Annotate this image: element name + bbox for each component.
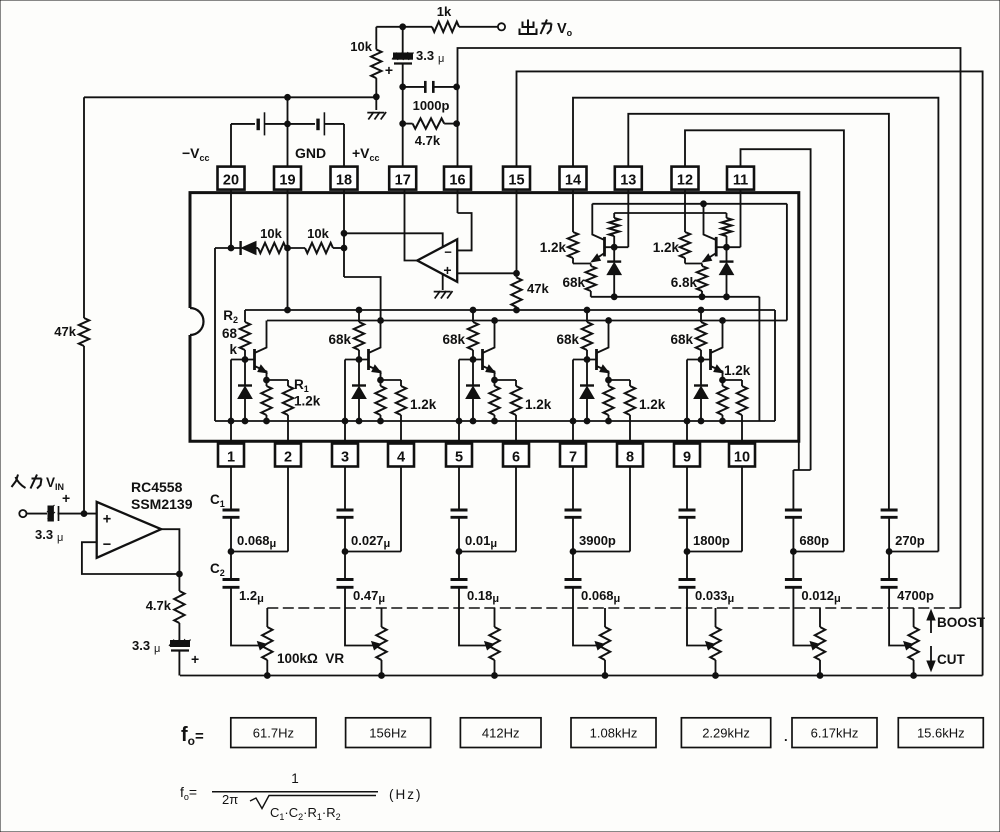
potentiometer VR7 100k bbox=[908, 608, 918, 678]
svg-text:68k: 68k bbox=[442, 332, 465, 347]
capacitor C1 0.01 (band 3) bbox=[451, 510, 468, 517]
wiper arrow (band 1) bbox=[258, 642, 267, 650]
svg-text:−: − bbox=[103, 537, 111, 553]
wiper arrow (band 4) bbox=[595, 642, 604, 650]
capacitor C2 0.47 (band 2) bbox=[337, 552, 354, 588]
svg-text:1k: 1k bbox=[437, 4, 452, 19]
wire: +Vcc pin18 drop bbox=[343, 124, 345, 167]
resistor 1.2k (upper-left cell, pin column) bbox=[568, 190, 578, 264]
resistor 1.2k second (cell 4) bbox=[625, 380, 635, 444]
wire: C2 down to wiper (band 3) bbox=[459, 587, 487, 645]
svg-text:1.2k: 1.2k bbox=[525, 397, 552, 412]
label 68k (cell 4) bbox=[556, 332, 579, 347]
svg-text:fo=: fo= bbox=[180, 784, 197, 802]
resistor 47k (left) bbox=[54, 318, 89, 346]
svg-text:10: 10 bbox=[734, 449, 750, 465]
svg-text:3: 3 bbox=[341, 449, 349, 465]
svg-text:4700p: 4700p bbox=[897, 588, 934, 603]
capacitor C2 1.2 (band 1) bbox=[223, 552, 240, 588]
wire: pin15 column into IC bbox=[516, 190, 518, 274]
wire: left rail lower bbox=[83, 346, 85, 514]
capacitor C2 0.18 (band 3) bbox=[451, 552, 468, 588]
wire: mid node (band 4) bbox=[570, 517, 630, 554]
svg-text:680p: 680p bbox=[799, 533, 829, 548]
wire: U2 non-inverting input to 47k node bbox=[457, 270, 519, 276]
label 1.2k (cell 5) bbox=[724, 363, 751, 378]
svg-text:1.2k: 1.2k bbox=[653, 240, 680, 255]
label RC4558 / SSM2139 bbox=[131, 479, 193, 512]
wire: mid node (band 5) bbox=[684, 517, 742, 554]
wire: pin19 column inside IC bbox=[285, 190, 291, 313]
resistor 10k (second) bbox=[305, 226, 333, 253]
label C2 value (band 1) bbox=[239, 588, 264, 605]
resistor 1.2k second (cell 5) bbox=[737, 380, 747, 444]
label C1 value (band 4) bbox=[579, 533, 616, 548]
fo frequency box 156Hz bbox=[346, 718, 431, 748]
fo frequency box 1.08kHz bbox=[571, 718, 656, 748]
IC body outline (DIP-20) with notch bbox=[190, 193, 799, 442]
svg-text:47k: 47k bbox=[54, 324, 76, 339]
capacitor C1 3900p (band 4) bbox=[565, 510, 582, 517]
diode D3 (cell 3) bbox=[466, 360, 480, 424]
capacitor 3.3u (top electrolytic) bbox=[385, 48, 444, 78]
wire: mid node (band 3) bbox=[456, 517, 516, 554]
output terminal circle bbox=[498, 23, 505, 30]
label C2 bbox=[210, 561, 225, 578]
capacitor 1000p bbox=[403, 81, 460, 113]
svg-text:9: 9 bbox=[683, 449, 691, 465]
wire: pin 9 riser to base node (cell 5) bbox=[684, 357, 710, 444]
svg-text:1.2k: 1.2k bbox=[639, 397, 666, 412]
capacitor C2 0.033 (band 5) bbox=[679, 552, 696, 588]
potentiometer VR3 100k bbox=[489, 608, 499, 678]
label BOOST with arrow bbox=[927, 610, 986, 633]
svg-text:+: + bbox=[62, 490, 70, 506]
op-amp U1 RC4558 (pointing right) bbox=[97, 502, 162, 558]
wiper arrow (band 2) bbox=[372, 642, 381, 650]
wire: mid node (band 6) bbox=[791, 517, 844, 554]
svg-text:1.2k: 1.2k bbox=[540, 240, 567, 255]
svg-text:11: 11 bbox=[733, 172, 748, 188]
resistor 10k (top, to ground) bbox=[350, 27, 381, 110]
svg-text:6: 6 bbox=[512, 449, 520, 465]
svg-text:4: 4 bbox=[397, 449, 405, 465]
label R2 68k (cell 1) bbox=[222, 308, 238, 357]
svg-text:+: + bbox=[385, 62, 393, 78]
svg-text:15: 15 bbox=[508, 172, 524, 188]
label C1 value (band 6) bbox=[799, 533, 829, 548]
svg-text:3900p: 3900p bbox=[579, 533, 616, 548]
wire: emitter node (cell 5) bbox=[720, 377, 742, 383]
wire: upper rail drop to inner rail bbox=[758, 297, 760, 421]
wire: C2 down to wiper (band 4) bbox=[573, 587, 597, 645]
resistor 1.2k second (cell 3) bbox=[511, 380, 521, 444]
label 68k (cell 5) bbox=[670, 332, 693, 347]
label 1.2k (upper-left cell) bbox=[540, 240, 567, 255]
wire: U2 output to pin17 column bbox=[405, 190, 418, 261]
transistor (upper-right cell) bbox=[703, 204, 717, 262]
formula fo = 1/(2pi sqrt(C1 C2 R1 R2)) (Hz) bbox=[180, 771, 423, 822]
wire: U1 feedback loop bbox=[82, 542, 179, 574]
capacitor C1 680p (band 6) bbox=[785, 510, 802, 517]
wire: pin15 feedback to CUT rail end bbox=[517, 71, 983, 675]
wire: pin18 column inside IC bbox=[341, 190, 347, 277]
svg-text:16: 16 bbox=[449, 172, 465, 188]
svg-text:1: 1 bbox=[291, 771, 299, 786]
wire: collector rail H1 (upper cells) bbox=[592, 201, 787, 207]
svg-text:10k: 10k bbox=[307, 226, 329, 241]
svg-text:68: 68 bbox=[222, 326, 238, 341]
label C1 value (band 3) bbox=[465, 533, 497, 550]
svg-text:10k: 10k bbox=[260, 226, 282, 241]
capacitor C1 0.068 (band 1) bbox=[223, 510, 240, 517]
label CUT with arrow bbox=[927, 646, 965, 671]
transistor Q3 (cell 3) bbox=[483, 321, 496, 381]
resistor base 1.2k (upper-right cell) bbox=[721, 213, 731, 247]
svg-text:10k: 10k bbox=[350, 39, 372, 54]
label R1 1.2k (cell 1) bbox=[294, 377, 321, 409]
wiper arrow (band 3) bbox=[485, 642, 494, 650]
svg-text:15.6kHz: 15.6kHz bbox=[917, 726, 965, 741]
potentiometer VR4 100k bbox=[600, 608, 610, 678]
wire: rail1 right end down to inner rail bbox=[774, 310, 776, 421]
svg-text:68k: 68k bbox=[556, 332, 579, 347]
wire: CUT rail bbox=[180, 675, 983, 677]
battery (GND to +Vcc) bbox=[288, 112, 345, 135]
svg-text:18: 18 bbox=[336, 172, 352, 188]
svg-text:3.3: 3.3 bbox=[35, 527, 53, 542]
wire: pin 7 down to C1 (band 4) bbox=[572, 467, 574, 511]
resistor R2 68k (cell 1) bbox=[240, 310, 250, 360]
resistor 1.2k second (cell 2) bbox=[396, 380, 406, 444]
wire: emitter node (upper-right cell) bbox=[685, 263, 702, 265]
svg-text:412Hz: 412Hz bbox=[482, 726, 520, 741]
label 1.2k (cell 4) bbox=[639, 397, 666, 412]
wire: upper emitter rail bbox=[591, 294, 760, 300]
svg-text:2.29kHz: 2.29kHz bbox=[702, 726, 750, 741]
svg-text:3.3: 3.3 bbox=[416, 48, 434, 63]
resistor 1.2k first (cell 3) bbox=[489, 380, 499, 424]
potentiometer VR1 100k bbox=[262, 608, 272, 678]
svg-text:19: 19 bbox=[279, 172, 295, 188]
transistor Q2 (cell 2) bbox=[369, 321, 382, 381]
wire: feedback step to op-amp U2 top edge bbox=[344, 233, 443, 247]
wire: pin14 feedback to band7 mid bbox=[573, 98, 938, 552]
capacitor C2 0.012 (band 6) bbox=[785, 552, 802, 588]
wire: output node to CUT rail bbox=[178, 650, 180, 676]
wire: pin13 feedback to band7 top cap bbox=[628, 114, 889, 510]
wire: pin column to base (upper-left cell) bbox=[627, 190, 629, 248]
wire: diode row left corner down to inner rail bbox=[214, 248, 216, 421]
fo frequency box 15.6kHz bbox=[898, 718, 983, 748]
wire: op-amp output top node to 1k bbox=[376, 24, 498, 30]
resistor 1k bbox=[432, 4, 459, 32]
IC top pin boxes 20-11 bbox=[218, 167, 755, 190]
battery (-Vcc to GND) bbox=[231, 112, 288, 135]
svg-text:1000p: 1000p bbox=[413, 98, 450, 113]
capacitor C2 4700p (band 7) bbox=[881, 552, 898, 588]
svg-text:+: + bbox=[103, 512, 111, 528]
wire: IC corner drop and jog to band6 top cap bbox=[793, 441, 810, 510]
label C2 value (band 7) bbox=[897, 588, 934, 603]
wire: base wire (upper-right cell) bbox=[716, 244, 740, 250]
wiper arrow (band 7) bbox=[904, 642, 913, 650]
wire: pin 4 down to mid node (band 2) bbox=[400, 467, 402, 552]
label 100k VR bbox=[277, 651, 344, 666]
svg-text:1: 1 bbox=[227, 449, 235, 465]
wire: pin 10 down to mid node (band 5) bbox=[741, 467, 743, 552]
wire: C2 down to wiper (band 1) bbox=[231, 587, 259, 645]
label 1.2k (cell 3) bbox=[525, 397, 552, 412]
svg-text:17: 17 bbox=[395, 172, 411, 188]
dot before 6.17kHz box bbox=[784, 729, 788, 744]
label C1 value (band 5) bbox=[693, 533, 730, 548]
svg-text:SSM2139: SSM2139 bbox=[131, 496, 193, 512]
svg-text:6.8k: 6.8k bbox=[671, 275, 698, 290]
potentiometer VR6 100k bbox=[815, 608, 825, 678]
potentiometer VR2 100k bbox=[376, 608, 386, 678]
label 68k (cell 3) bbox=[442, 332, 465, 347]
label C2 value (band 4) bbox=[581, 588, 620, 605]
label 6.8k (upper-right cell) bbox=[671, 275, 698, 290]
svg-text:68k: 68k bbox=[670, 332, 693, 347]
svg-text:156Hz: 156Hz bbox=[369, 726, 407, 741]
svg-text:1800p: 1800p bbox=[693, 533, 730, 548]
capacitor C1 0.027 (band 2) bbox=[337, 510, 354, 517]
diode D4 (cell 4) bbox=[580, 360, 594, 424]
wire: pin11 feedback to band6 jog bbox=[741, 149, 811, 470]
svg-text:(Hz): (Hz) bbox=[389, 787, 423, 802]
svg-text:3.3: 3.3 bbox=[132, 638, 150, 653]
svg-text:13: 13 bbox=[620, 172, 636, 188]
svg-text:.: . bbox=[784, 729, 788, 744]
label 68k (upper-left cell) bbox=[562, 275, 585, 290]
svg-text:14: 14 bbox=[565, 172, 581, 188]
resistor 4.7k (output) bbox=[146, 574, 185, 640]
diode D2 (cell 2) bbox=[352, 360, 366, 424]
fo frequency box 2.29kHz bbox=[681, 718, 770, 748]
diode D5 (cell 5) bbox=[694, 360, 708, 424]
svg-text:2: 2 bbox=[284, 449, 292, 465]
wiper arrow (band 5) bbox=[706, 642, 715, 650]
label C1 value (band 2) bbox=[351, 533, 390, 550]
label GND bbox=[295, 145, 326, 161]
wire: pin 1 riser to base node (cell 1) bbox=[228, 357, 254, 444]
capacitor C1 270p (band 7) bbox=[881, 510, 898, 517]
potentiometer VR5 100k bbox=[710, 608, 720, 678]
wire: base wire (upper-left cell) bbox=[605, 244, 629, 250]
diode D1 (cell 1) bbox=[238, 360, 252, 424]
wire: pin 2 down to mid node (band 1) bbox=[287, 467, 289, 552]
svg-text:1.2k: 1.2k bbox=[724, 363, 751, 378]
wire: pin18 jog to rail 2 bbox=[344, 277, 381, 321]
svg-text:k: k bbox=[229, 342, 237, 357]
label 出力Vo (output) bbox=[520, 20, 573, 39]
label 入力VIN (input) bbox=[12, 475, 65, 493]
wire: emitter node (cell 2) bbox=[378, 377, 401, 383]
transistor Q1 (cell 1) bbox=[255, 321, 268, 381]
label 1.2k (cell 2) bbox=[410, 397, 437, 412]
wire: C2 down to wiper (band 6) bbox=[793, 587, 812, 645]
fo frequency box 412Hz bbox=[460, 718, 541, 748]
wire: C2 down to wiper (band 5) bbox=[687, 587, 708, 645]
svg-text:1.2k: 1.2k bbox=[294, 394, 321, 409]
fo frequency box 6.17kHz bbox=[792, 718, 877, 748]
label C2 value (band 2) bbox=[353, 588, 385, 605]
wire: rail 1 (bias rail) bbox=[245, 307, 775, 313]
svg-text:7: 7 bbox=[569, 449, 577, 465]
label C1 bbox=[210, 492, 225, 509]
label fo= bbox=[181, 724, 204, 748]
svg-text:μ: μ bbox=[438, 53, 444, 65]
wire: pin column to base (upper-right cell) bbox=[740, 190, 742, 248]
wire: pin12 feedback to band6 mid bbox=[685, 130, 844, 551]
resistor 6.8k (upper-right cell) bbox=[697, 264, 707, 297]
svg-text:8: 8 bbox=[626, 449, 634, 465]
label C2 value (band 6) bbox=[801, 588, 840, 605]
resistor 1.2k first (cell 2) bbox=[375, 380, 385, 424]
wire: C2 down to wiper (band 7) bbox=[889, 587, 906, 645]
wire: C2 down to wiper (band 2) bbox=[345, 587, 374, 645]
svg-text:1.08kHz: 1.08kHz bbox=[590, 726, 638, 741]
resistor R2 68k (cell 4) bbox=[582, 310, 592, 360]
resistor R2 68k (cell 2) bbox=[354, 310, 364, 360]
wire: 10k to pin18 column bbox=[333, 245, 347, 251]
transistor (upper-left cell) bbox=[591, 204, 604, 262]
wire: pin 17 column (top) bbox=[400, 27, 406, 167]
wire: base-resistor rail H2 (upper cells) bbox=[614, 212, 726, 214]
svg-text:4.7k: 4.7k bbox=[146, 598, 172, 613]
svg-text:270p: 270p bbox=[895, 533, 925, 548]
wire: pin 9 down to C1 (band 5) bbox=[686, 467, 688, 511]
resistor 1.2k first (cell 1) bbox=[261, 380, 271, 424]
svg-text:47k: 47k bbox=[527, 281, 549, 296]
svg-text:5: 5 bbox=[455, 449, 463, 465]
wire: pin 5 riser to base node (cell 3) bbox=[456, 357, 482, 444]
fo frequency box 61.7Hz bbox=[231, 718, 316, 748]
wire: left rail with 47k bbox=[83, 97, 85, 318]
resistor 1.2k first (cell 5) bbox=[717, 380, 727, 424]
diode (upper-right cell) bbox=[720, 247, 734, 297]
label +Vcc bbox=[352, 145, 380, 163]
transistor Q5 (cell 5) bbox=[711, 321, 724, 381]
svg-text:4.7k: 4.7k bbox=[415, 133, 441, 148]
diode (left, at 10k row) bbox=[215, 241, 258, 255]
wire: U1 output down bbox=[161, 529, 182, 577]
svg-text:6.17kHz: 6.17kHz bbox=[811, 726, 859, 741]
input terminal circle bbox=[19, 510, 26, 517]
svg-text:2π: 2π bbox=[222, 792, 238, 807]
capacitor C2 0.068 (band 4) bbox=[565, 552, 582, 588]
svg-text:RC4558: RC4558 bbox=[131, 479, 183, 495]
wire: pin 5 down to C1 (band 3) bbox=[458, 467, 460, 511]
diode (upper-left cell) bbox=[607, 247, 621, 297]
wire: pin 6 down to mid node (band 3) bbox=[515, 467, 517, 552]
wire: top-left rail to 10k/gnd node bbox=[84, 94, 376, 100]
wire: GND pin19 column bbox=[285, 97, 291, 166]
wire: mid node (band 2) bbox=[342, 517, 401, 554]
svg-text:20: 20 bbox=[223, 172, 239, 188]
op-amp U2 (internal, pointing left) bbox=[417, 239, 457, 281]
wire: emitter node (cell 1) bbox=[264, 377, 288, 383]
svg-text:68k: 68k bbox=[562, 275, 585, 290]
capacitor 3.3u (output electrolytic) bbox=[132, 638, 199, 667]
svg-text:BOOST: BOOST bbox=[937, 615, 986, 630]
resistor R2 68k (cell 5) bbox=[696, 310, 706, 360]
svg-text:68k: 68k bbox=[328, 332, 351, 347]
label C1 value (band 7) bbox=[895, 533, 925, 548]
svg-text:μ: μ bbox=[57, 532, 63, 544]
svg-text:GND: GND bbox=[295, 145, 326, 161]
label C1 value (band 1) bbox=[237, 533, 276, 550]
wire: pin20 into IC bbox=[228, 190, 234, 251]
wire: mid node (band 7) bbox=[886, 517, 938, 554]
transistor Q4 (cell 4) bbox=[597, 321, 610, 381]
resistor 1.2k first (cell 4) bbox=[603, 380, 613, 424]
svg-text:100kΩ VR: 100kΩ VR bbox=[277, 651, 344, 666]
svg-text:−: − bbox=[444, 245, 452, 260]
label 68k (cell 2) bbox=[328, 332, 351, 347]
svg-text:μ: μ bbox=[154, 643, 160, 655]
capacitor C1 1800p (band 5) bbox=[679, 510, 696, 517]
wire: -Vcc pin20 drop bbox=[230, 124, 232, 167]
IC bottom pin boxes 1-10 bbox=[218, 444, 755, 467]
label C2 value (band 3) bbox=[467, 588, 499, 605]
wire: pin 7 riser to base node (cell 4) bbox=[570, 357, 596, 444]
wire: BOOST rail (dashed) bbox=[267, 607, 960, 609]
svg-text:1.2k: 1.2k bbox=[410, 397, 437, 412]
wire: pin 8 down to mid node (band 4) bbox=[629, 467, 631, 552]
resistor 68k (upper-left cell) bbox=[586, 264, 596, 297]
svg-text:CUT: CUT bbox=[937, 652, 965, 667]
wire: emitter node (upper-left cell) bbox=[573, 263, 591, 265]
label -Vcc bbox=[182, 145, 210, 163]
svg-text:12: 12 bbox=[677, 172, 693, 188]
label C2 value (band 5) bbox=[695, 588, 734, 605]
wiper arrow (band 6) bbox=[810, 642, 819, 650]
svg-text:+: + bbox=[191, 651, 199, 667]
wire: pin 1 down to C1 (band 1) bbox=[230, 467, 232, 511]
svg-text:61.7Hz: 61.7Hz bbox=[253, 726, 294, 741]
wire: pin 3 riser to base node (cell 2) bbox=[342, 357, 368, 444]
resistor R2 68k (cell 3) bbox=[468, 310, 478, 360]
wire: pin 3 down to C1 (band 2) bbox=[344, 467, 346, 511]
ground (under op-amp U2) bbox=[434, 291, 453, 299]
wire: U2 ground stub bbox=[442, 274, 444, 290]
resistor 47k (internal) bbox=[511, 273, 549, 313]
resistor 1.2k (upper-right cell, pin column) bbox=[680, 190, 690, 264]
wire: inner emitter rail bbox=[215, 420, 775, 422]
resistor 4.7k (top) bbox=[403, 118, 460, 148]
wire: 10k junction at pin19 column bbox=[285, 245, 305, 251]
svg-text:+: + bbox=[443, 262, 451, 278]
capacitor 3.3u (input electrolytic) bbox=[27, 490, 71, 544]
wire: input to op-amp U1 bbox=[58, 511, 97, 517]
resistor 10k (first) bbox=[258, 226, 286, 253]
resistor base 1.2k (upper-left cell) bbox=[609, 213, 619, 247]
wire: pin16 column into IC to U2 inverting input bbox=[458, 190, 472, 251]
label 1.2k (upper-right cell) bbox=[653, 240, 680, 255]
wire: rail 2 (collector rail) bbox=[267, 318, 787, 324]
wire: emitter node (cell 4) bbox=[606, 377, 630, 383]
wire: mid node (band 1) bbox=[228, 517, 288, 554]
resistor 1.2k second (cell 1) bbox=[283, 380, 293, 444]
wire: H1 drop to rail 2 bbox=[786, 204, 788, 321]
ground (below 10k) bbox=[367, 112, 386, 120]
wire: pin16 feedback to BOOST rail end bbox=[458, 48, 961, 608]
wire: emitter node (cell 3) bbox=[492, 377, 516, 383]
